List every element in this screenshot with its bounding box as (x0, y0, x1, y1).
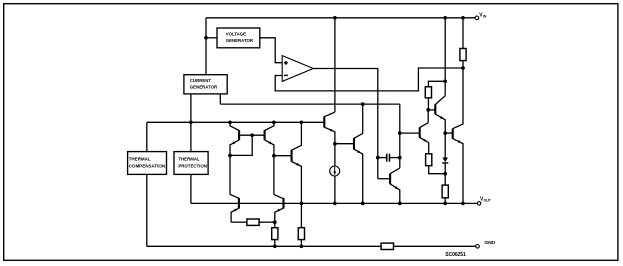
transistor Q3 (292, 122, 302, 203)
transistor Q4 (324, 112, 335, 166)
terminal VOUT (477, 197, 491, 205)
node vout/Q3 (300, 202, 304, 206)
transistor Q8 (274, 195, 284, 223)
node railA / Q1 collector (228, 120, 232, 124)
node Q9 base branch (398, 131, 402, 135)
wire Q1 Q2 base join (239, 134, 265, 136)
resistor R6 (272, 222, 278, 246)
wire VIN rail (206, 17, 475, 19)
svg-text:GENERATOR: GENERATOR (226, 38, 254, 43)
svg-text:THERMAL: THERMAL (129, 157, 151, 162)
wire CG right output down (219, 94, 221, 104)
wire ground rail right (394, 245, 476, 247)
transistor Q7 (230, 194, 239, 222)
terminal VIN (475, 13, 487, 20)
wire Q2 emitter down to Q8 (273, 156, 275, 195)
diode D1 (442, 156, 448, 185)
node base join (250, 133, 254, 137)
wire Q10 collector drop (444, 18, 446, 96)
svg-text:GENERATOR: GENERATOR (190, 85, 218, 90)
label SC06251 (445, 252, 466, 258)
node Q5 base branch (333, 142, 337, 146)
node vout/R4 (443, 202, 447, 206)
node rail1 / Q5 collector (361, 102, 365, 106)
wire VOUT rail (191, 202, 478, 204)
node vout/Q5 (361, 202, 365, 206)
node C1 right (398, 156, 402, 160)
svg-text:CURRENT: CURRENT (190, 78, 212, 83)
wire op-amp inverting feedback (275, 68, 463, 91)
resistor R7 (298, 203, 304, 246)
wire op-amp output drop (377, 104, 379, 179)
resistor R5 (247, 219, 259, 225)
node Q11 base branch (443, 131, 447, 135)
current source I1 (330, 166, 340, 176)
node Q8 emitter / R5 / R6 (273, 220, 277, 224)
node gnd/R7 (300, 244, 304, 248)
node railA / Q2 collector (272, 120, 276, 124)
wire R5 to node (259, 221, 275, 223)
node vout/Q6 (398, 202, 402, 206)
node vout/I1 (333, 202, 337, 206)
node top-rail / center vertical (333, 16, 337, 20)
transistor Q9 (420, 123, 429, 154)
svg-text:COMPENSATION: COMPENSATION (129, 163, 165, 168)
block U4 THERMAL PROTECTION (174, 152, 208, 175)
node top-rail / R1 branch (461, 16, 465, 20)
svg-text:OUT: OUT (484, 199, 492, 203)
transistor Q2 (265, 122, 274, 155)
wire op-amp output (313, 69, 378, 105)
node R3 / diode chain (443, 172, 447, 176)
node railA / TP vertical (189, 120, 193, 124)
node Q1 emitter / base-join (228, 154, 232, 158)
wire I1 to VOUT rail (334, 176, 336, 203)
node R2 branch (443, 79, 447, 83)
wire railA drop to thermal compensation (146, 122, 148, 151)
wire VG output to op-amp + (260, 38, 282, 63)
wire base join drop (230, 135, 252, 155)
wire ground rail left (147, 245, 381, 247)
terminal GND (476, 240, 496, 248)
wire Q9 collector up (427, 110, 429, 123)
svg-text:VOLTAGE: VOLTAGE (226, 32, 246, 37)
node VG branch (204, 36, 208, 40)
block U1 VOLTAGE GENERATOR (217, 28, 260, 48)
svg-text:PROTECTION: PROTECTION (178, 163, 206, 168)
resistor R1 (460, 18, 466, 68)
node railA / Q3 collector (300, 120, 304, 124)
capacitor C1 (378, 154, 400, 162)
node vout/Q11 (461, 202, 465, 206)
svg-text:SC06251: SC06251 (445, 252, 466, 258)
wire base rail A (147, 121, 324, 123)
wire Q7 emitter to R5 (231, 221, 247, 223)
wire U4 down to VOUT rail (190, 174, 192, 203)
resistor R8 (381, 243, 393, 249)
wire to voltage generator (206, 37, 217, 39)
wire rail1 right drop (399, 104, 401, 168)
transistor Q10 (435, 96, 445, 156)
transistor Q6 (390, 168, 400, 203)
wire Q6 base (378, 178, 390, 180)
transistor Q11 series pass (453, 68, 463, 203)
transistor Q1 (230, 122, 239, 155)
node R2 / Q10 base / Q9 collector (426, 108, 430, 112)
svg-text:IN: IN (483, 15, 487, 19)
resistor R2 (425, 81, 445, 110)
wire Q11 base (445, 132, 453, 134)
wire Q1 emitter down to Q7 (229, 156, 231, 195)
wire Q10 base (428, 109, 435, 111)
node top-rail / Q10 branch (443, 16, 447, 20)
node C1 left (376, 156, 380, 160)
transistor Q5 (354, 104, 363, 203)
wire top-rail left drop (205, 18, 207, 75)
block U3 THERMAL COMPENSATION (128, 152, 167, 175)
svg-text:GND: GND (484, 240, 495, 246)
node Q2 emitter / Q3 base (272, 154, 276, 158)
resistor R3 (426, 154, 446, 174)
block U2 CURRENT GENERATOR (184, 75, 227, 94)
svg-text:THERMAL: THERMAL (178, 157, 200, 162)
node R1 bottom / feedback (461, 66, 465, 70)
wire Q5 base (335, 143, 354, 145)
node gnd/R6 (273, 244, 277, 248)
wire Q3 base (274, 155, 292, 157)
wire bias rail (220, 103, 399, 105)
wire CG left output down (190, 94, 192, 152)
op-amp U5 error amplifier (282, 56, 313, 82)
wire U3 to ground rail (146, 174, 148, 246)
wire Q9 base (400, 132, 420, 134)
wire center vertical (334, 18, 336, 112)
resistor R4 (442, 185, 448, 203)
